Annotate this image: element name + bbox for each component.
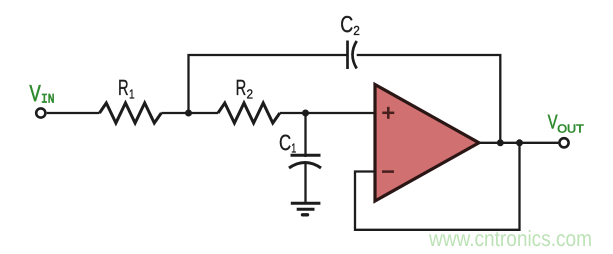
svg-text:1: 1 bbox=[129, 87, 135, 102]
node A junction R1/R2/C2 bbox=[185, 110, 192, 117]
terminal VIN bbox=[36, 108, 45, 117]
svg-text:C: C bbox=[279, 130, 291, 155]
label VOUT bbox=[548, 112, 584, 136]
junction feedback/output bbox=[516, 139, 523, 146]
resistor R2 bbox=[218, 103, 280, 123]
svg-text:1: 1 bbox=[291, 141, 296, 156]
wire feedback bottom to - input bbox=[355, 143, 520, 230]
wire R1 to R2 bbox=[161, 112, 218, 114]
svg-text:2: 2 bbox=[353, 23, 360, 38]
node B junction R2/C1 bbox=[302, 110, 309, 117]
svg-text:R: R bbox=[118, 75, 129, 100]
wire node B down to C1 bbox=[304, 113, 306, 157]
capacitor C2 bbox=[348, 41, 357, 70]
wire op-amp output bbox=[479, 142, 558, 144]
label C1 bbox=[279, 130, 296, 156]
svg-text:2: 2 bbox=[247, 86, 254, 101]
op-amp U1 bbox=[375, 85, 479, 202]
label C2 bbox=[340, 11, 360, 38]
op-amp - input symbol bbox=[382, 170, 394, 173]
svg-text:C: C bbox=[340, 11, 353, 37]
resistor R1 bbox=[100, 103, 162, 123]
wire input to R1 bbox=[47, 112, 100, 114]
wire node A up to feedback bbox=[189, 55, 347, 113]
label R2 bbox=[236, 75, 254, 101]
terminal VOUT bbox=[559, 138, 568, 147]
svg-text:IN: IN bbox=[41, 92, 55, 107]
ground bbox=[291, 203, 321, 215]
junction C2/output bbox=[497, 139, 504, 146]
wire C1 to ground bbox=[304, 164, 306, 203]
op-amp + input symbol bbox=[382, 107, 394, 119]
svg-text:R: R bbox=[236, 75, 247, 100]
svg-text:V: V bbox=[30, 80, 42, 106]
wire R2 to op-amp + input bbox=[280, 112, 375, 114]
label VIN bbox=[30, 80, 55, 107]
svg-text:www.cntronics.com: www.cntronics.com bbox=[428, 226, 592, 251]
capacitor C1 bbox=[289, 155, 321, 168]
svg-text:OUT: OUT bbox=[557, 124, 584, 136]
label R1 bbox=[118, 75, 135, 102]
wire feedback top right segment down to output bbox=[357, 55, 501, 143]
